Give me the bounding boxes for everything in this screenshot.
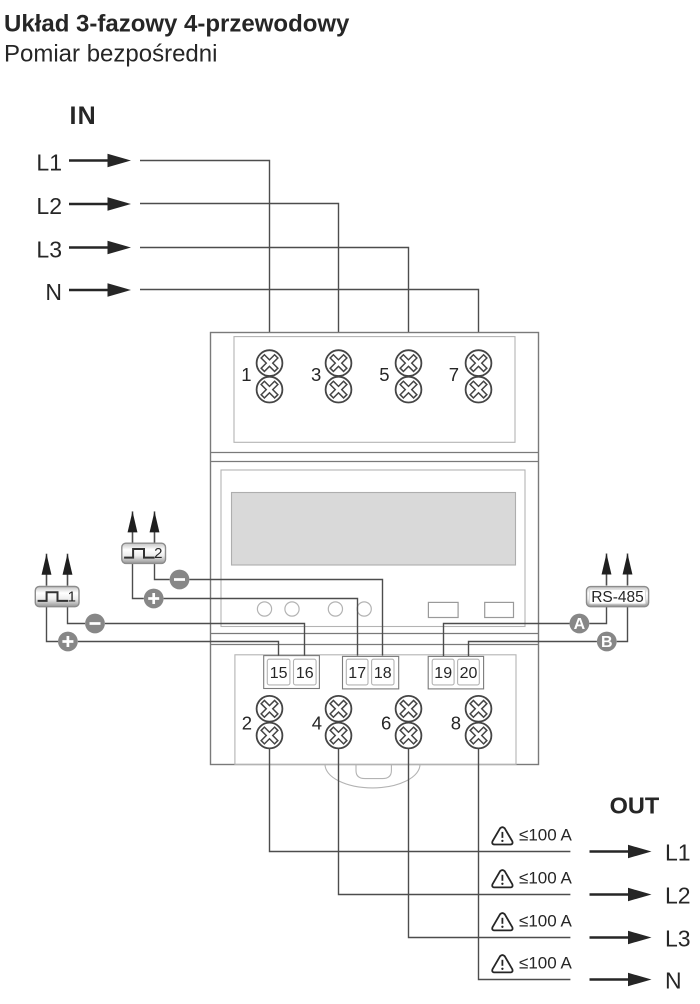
svg-text:18: 18 (374, 665, 392, 682)
warning max current L1 (492, 826, 572, 845)
svg-text:L1: L1 (665, 840, 691, 866)
pulse output 2 box (122, 543, 166, 563)
terminal 4 screw bottom (325, 722, 352, 749)
svg-text:5: 5 (379, 364, 389, 385)
terminal 2 screw bottom (256, 722, 283, 749)
wire N to terminal 7 (140, 290, 479, 351)
terminal 6 screw bottom (395, 722, 422, 749)
svg-text:≤100 A: ≤100 A (519, 954, 572, 973)
svg-text:16: 16 (296, 665, 314, 682)
node plus pulse2 (144, 589, 164, 609)
bottom cover inner box (235, 655, 516, 765)
wire pulse1 plus to terminal 15 (47, 607, 59, 642)
svg-text:17: 17 (348, 665, 366, 682)
pulse output 2 arrows (128, 511, 138, 543)
DIN clip big arc (325, 764, 420, 788)
terminal 8 screw top (465, 695, 492, 722)
LCD display (232, 493, 516, 566)
wire L1 to terminal 1 (140, 161, 270, 351)
terminal 16 box (294, 659, 317, 685)
arrow L3 out (590, 931, 652, 944)
terminal 19 box (432, 659, 454, 685)
wire terminal 4 to L2 out (339, 748, 571, 894)
main body inner box (221, 470, 525, 627)
meter groove upper (211, 452, 539, 454)
wire L3 to terminal 5 (140, 248, 409, 351)
warning max current L3 (492, 912, 572, 931)
node minus pulse2 (170, 570, 190, 590)
arrow L1 in (69, 154, 131, 167)
meter body outline (211, 333, 539, 765)
top cover inner box (234, 337, 515, 443)
DIN clip small clip (356, 764, 391, 778)
warning max current N (492, 954, 572, 973)
wire terminal 6 to L3 out (409, 748, 571, 937)
svg-text:6: 6 (381, 712, 391, 733)
arrow L1 out (590, 845, 652, 858)
svg-text:B: B (601, 634, 613, 651)
terminal 3 screw bottom (325, 376, 352, 403)
wire pulse2 plus to terminal 17 (133, 563, 144, 598)
svg-text:3: 3 (311, 364, 321, 385)
svg-text:L2: L2 (36, 193, 62, 219)
svg-text:1: 1 (241, 364, 251, 385)
front window left (428, 602, 458, 617)
wire RS485 B to terminal 20 (617, 607, 628, 642)
arrow N out (590, 973, 652, 986)
wire pulse2 minus to terminal 18 (155, 563, 170, 579)
terminal 1 screw bottom (256, 376, 283, 403)
arrow L2 out (590, 888, 652, 901)
svg-text:OUT: OUT (610, 793, 660, 819)
terminal 2 screw top (256, 695, 283, 722)
pulse output 1 box (35, 587, 79, 607)
RS-485 box (587, 587, 649, 607)
node plus pulse1 (58, 632, 78, 652)
node B (597, 632, 617, 652)
wire terminal 2 to L1 out (270, 748, 571, 851)
svg-text:IN: IN (70, 102, 97, 130)
svg-text:L3: L3 (36, 237, 62, 263)
svg-text:L1: L1 (36, 150, 62, 176)
svg-text:A: A (574, 616, 586, 633)
arrow L2 in (69, 197, 131, 210)
front window right (485, 602, 514, 617)
terminal 5 screw top (395, 350, 422, 377)
svg-text:N: N (665, 968, 682, 994)
svg-text:7: 7 (449, 364, 459, 385)
svg-text:≤100 A: ≤100 A (519, 912, 572, 931)
svg-text:Pomiar bezpośredni: Pomiar bezpośredni (4, 41, 217, 68)
wire pulse1 minus to terminal 16 (68, 607, 86, 624)
terminal 15 box (267, 659, 290, 685)
front button 4 (357, 602, 371, 616)
front button 2 (285, 602, 299, 616)
terminal 4 screw top (325, 695, 352, 722)
terminal 7 screw bottom (465, 376, 492, 403)
terminal 17 box (346, 659, 368, 685)
front button 1 (257, 602, 271, 616)
svg-text:Układ 3-fazowy 4-przewodowy: Układ 3-fazowy 4-przewodowy (4, 11, 350, 38)
svg-text:N: N (45, 279, 62, 305)
terminal 5 screw bottom (395, 376, 422, 403)
terminal 6 screw top (395, 695, 422, 722)
svg-text:≤100 A: ≤100 A (519, 869, 572, 888)
node A (570, 614, 590, 634)
svg-text:2: 2 (242, 712, 252, 733)
svg-text:15: 15 (270, 665, 288, 682)
svg-text:L2: L2 (665, 883, 691, 909)
arrow N in (69, 283, 131, 296)
terminal block 19-20 container (428, 656, 483, 689)
svg-text:L3: L3 (665, 926, 691, 952)
terminal 20 box (458, 659, 480, 685)
terminal block 17-18 container (343, 656, 399, 689)
svg-text:8: 8 (451, 712, 461, 733)
svg-text:19: 19 (434, 665, 452, 682)
RS-485 arrows (602, 554, 612, 586)
svg-text:RS-485: RS-485 (591, 589, 644, 606)
svg-text:1: 1 (68, 589, 76, 606)
terminal 18 box (372, 659, 394, 685)
warning max current L2 (492, 869, 572, 888)
wire L2 to terminal 3 (140, 204, 339, 351)
pulse output 1 arrows (42, 554, 52, 586)
wire terminal 8 to N out (479, 748, 571, 979)
terminal 8 screw bottom (465, 722, 492, 749)
node minus pulse1 (85, 614, 105, 634)
svg-text:20: 20 (460, 665, 478, 682)
terminal 1 screw top (256, 350, 283, 377)
terminal block 15-16 container (264, 656, 320, 689)
arrow L3 in (69, 241, 131, 254)
svg-text:4: 4 (312, 712, 322, 733)
terminal 3 screw top (325, 350, 352, 377)
svg-text:2: 2 (154, 545, 162, 562)
terminal 7 screw top (465, 350, 492, 377)
svg-text:≤100 A: ≤100 A (519, 826, 572, 845)
wire RS485 A to terminal 19 (589, 607, 606, 624)
meter groove lower (211, 633, 539, 635)
front button 3 (328, 602, 342, 616)
